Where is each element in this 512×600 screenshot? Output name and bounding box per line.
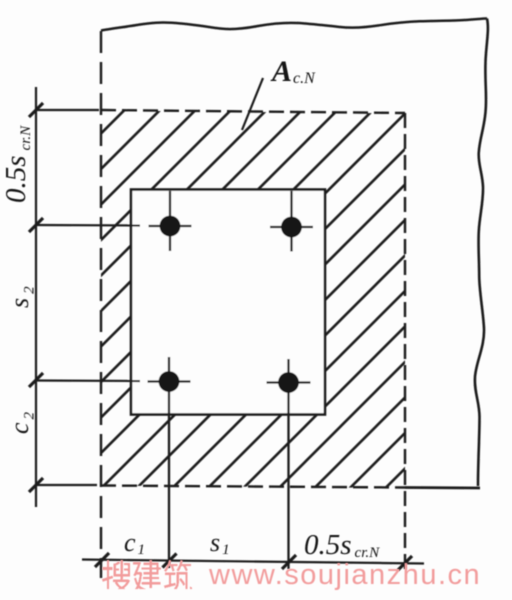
anchor bolt bottom-right cross / extension to dimension line: [267, 359, 311, 569]
tick on left dimension at upper bolt row: [29, 218, 43, 232]
watermark char jian (建): [133, 560, 161, 589]
tick on bottom dimension at right bolt column: [282, 555, 296, 569]
anchor bolt top-left dot: [160, 216, 181, 237]
left dimension line: [35, 87, 37, 507]
tick on left dimension at bottom: [29, 478, 43, 492]
anchor bolt bottom-left dot: [159, 371, 180, 392]
extension line upper bolt row: [36, 224, 140, 227]
svg-text:www.soujianzhu.cn: www.soujianzhu.cn: [208, 559, 481, 591]
tick on bottom dimension at left bolt column: [163, 554, 177, 568]
bottom dimension line: [82, 560, 424, 564]
hatched area A_c,N fill: [101, 111, 405, 489]
anchor bolt bottom-right dot: [278, 372, 299, 393]
anchor bolt bottom-left cross / extension to dimension line: [148, 357, 191, 568]
watermark char zhu (筑): [164, 560, 192, 589]
anchor bolt top-right cross: [270, 191, 313, 252]
anchor plate: [131, 190, 325, 415]
extension line bottom edge level: [36, 484, 97, 486]
concrete bottom edge: [405, 486, 480, 489]
tick on left dimension at lower bolt row: [29, 373, 43, 387]
anchor bolt top-right dot: [281, 217, 302, 238]
tick on bottom dimension at concrete edge: [95, 553, 109, 567]
tick on bottom dimension at hatch boundary: [398, 556, 412, 570]
anchor bolt top-left cross: [149, 191, 192, 251]
hatch area top boundary (dashed): [101, 110, 405, 113]
tick on left dimension at top: [29, 103, 43, 117]
watermark char sou (搜): [102, 560, 130, 589]
hatch area right boundary (dashed, extended to dimension line): [404, 113, 406, 572]
extension line top (0.5scr,N level): [36, 109, 99, 111]
concrete top edge (wavy break line): [101, 18, 487, 30]
extension line lower bolt row: [36, 379, 140, 382]
concrete left edge (dashed cut line): [100, 31, 102, 578]
hatch area bottom boundary (dashed): [101, 486, 405, 488]
concrete right edge (wavy break line): [475, 19, 488, 487]
leader line for A_c,N: [242, 78, 263, 130]
